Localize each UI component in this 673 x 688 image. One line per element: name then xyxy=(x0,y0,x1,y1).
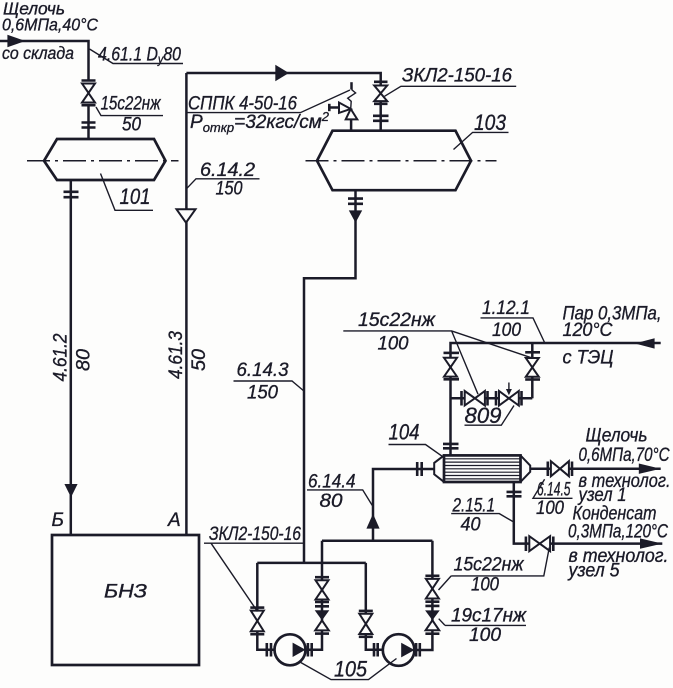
svg-text:100: 100 xyxy=(536,498,564,519)
svg-text:150: 150 xyxy=(247,383,278,404)
valve: left steam drop xyxy=(444,353,460,379)
check valve 19с17нж: pump 2 discharge xyxy=(425,610,440,633)
svg-text:105: 105 xyxy=(334,657,367,682)
safety valve СППК 4-50-16 xyxy=(329,82,357,131)
svg-text:6.14.3: 6.14.3 xyxy=(237,360,289,381)
svg-text:БНЗ: БНЗ xyxy=(104,582,147,603)
label 105 xyxy=(299,657,397,682)
svg-text:50: 50 xyxy=(189,349,210,371)
svg-text:100: 100 xyxy=(378,334,409,355)
label 6.14.2 / 150 xyxy=(187,160,260,200)
flange pair: pump 1 outlet xyxy=(308,643,312,657)
valve: pump 1 suction xyxy=(250,608,264,635)
arrow: inlet flow xyxy=(7,35,25,47)
label 2.15.1 / 40 xyxy=(451,496,513,536)
flange pair: heat exchanger steam inlet xyxy=(443,444,459,448)
svg-text:120°С: 120°С xyxy=(563,320,613,341)
label 15с22нж / 50 xyxy=(96,94,163,136)
flange: condensate valve left xyxy=(525,537,528,552)
svg-text:40: 40 xyxy=(461,515,481,536)
label 1.12.1 / 100 xyxy=(481,298,545,343)
wire: steam line from ТЭЦ xyxy=(451,343,661,455)
wire: discharge header xyxy=(322,540,432,543)
svg-text:0,3МПа,120°С: 0,3МПа,120°С xyxy=(568,522,668,543)
wire: alkali outlet from 104 to узел 1 xyxy=(530,467,661,470)
centerline: vessel 101 xyxy=(27,160,179,162)
svg-text:104: 104 xyxy=(389,420,420,445)
svg-text:с ТЭЦ: с ТЭЦ xyxy=(563,348,614,369)
label 15с22нж / 100 (bottom right) xyxy=(439,548,550,596)
wire: inlet line from warehouse to valve xyxy=(0,41,89,80)
arrow: condensate outlet flow xyxy=(640,538,662,548)
svg-text:Щелочь: Щелочь xyxy=(586,426,648,447)
svg-text:15с22нж: 15с22нж xyxy=(454,555,525,576)
label 6.14.5 / 100 xyxy=(533,479,573,519)
valve ЗКЛ2-150-16 (vessel 103 inlet) xyxy=(374,82,388,104)
label ЗКЛ2-150-16 (pump suction valves) xyxy=(204,524,304,612)
arrow: downward flow on 4.61.2 xyxy=(64,484,77,497)
wire: bypass line 809 xyxy=(451,397,533,400)
svg-text:80: 80 xyxy=(74,349,95,371)
tank БНЗ xyxy=(52,535,199,665)
label 4.61.1 Dy80 xyxy=(90,45,184,67)
wire: line 4.61.2 down to tank БНЗ xyxy=(70,180,73,535)
svg-text:15с22нж: 15с22нж xyxy=(358,310,436,331)
svg-text:со склада: со склада xyxy=(2,43,74,63)
flange: outlet left xyxy=(546,462,549,477)
label СППК 4-50-16 / Роткр=32кгс/см2 xyxy=(187,90,350,135)
valve: right steam drop xyxy=(525,352,540,379)
text: Щелочь 0,6МПа,70°С в технолог. узел 1 xyxy=(577,426,671,507)
svg-text:4.61.2: 4.61.2 xyxy=(51,333,72,381)
flange pair: vessel 103 inlet nozzle xyxy=(373,116,389,121)
flange pair: 104 bottom outlet xyxy=(507,492,522,496)
valve: pump 2 suction xyxy=(359,611,373,637)
label 103 xyxy=(454,110,509,150)
wire: pump 2 discharge riser xyxy=(415,541,433,650)
wire: valve to vessel 101 nozzle xyxy=(87,105,90,139)
label 6.14.4 / 80 xyxy=(307,472,372,513)
wire: line 4.61.3 / 6.14.2 vertical xyxy=(185,73,188,535)
text: Пар 0,3МПа, 120°С с ТЭЦ xyxy=(563,304,662,369)
flange pair: pump 1 inlet xyxy=(267,643,271,657)
svg-text:19с17нж: 19с17нж xyxy=(451,606,527,627)
svg-text:А: А xyxy=(167,510,181,531)
label 19с17нж / 100 xyxy=(439,606,527,647)
label 101 xyxy=(101,174,154,211)
heat exchanger 104 body xyxy=(434,455,530,482)
svg-text:ЗКЛ2-150-16: ЗКЛ2-150-16 xyxy=(402,66,512,87)
hollow arrow: drain / vent on 6.14.2 xyxy=(177,209,196,222)
wire: suction header xyxy=(257,562,366,565)
svg-text:103: 103 xyxy=(474,110,506,135)
vessel 103 xyxy=(317,131,471,191)
svg-text:15с22нж: 15с22нж xyxy=(101,94,162,115)
arrow: alkali outlet flow xyxy=(639,464,661,474)
svg-text:Б: Б xyxy=(52,510,64,531)
arrow: downward flow on 6.14.3 xyxy=(349,210,362,222)
valve: condensate gate valve xyxy=(529,536,553,551)
check valve: pump 1 discharge xyxy=(315,610,330,633)
svg-text:50: 50 xyxy=(122,115,141,136)
valve 15с22нж (inlet to vessel 101) xyxy=(82,81,96,106)
svg-text:ЗКЛ2-150-16: ЗКЛ2-150-16 xyxy=(209,524,301,545)
flange pair: pump 2 outlet xyxy=(416,643,420,657)
label 809 xyxy=(465,403,515,428)
svg-text:узел 5: узел 5 xyxy=(567,561,620,582)
svg-text:80: 80 xyxy=(320,491,343,512)
valve: bypass left xyxy=(462,391,488,406)
arrow: upward flow to 104 xyxy=(366,514,379,529)
svg-text:101: 101 xyxy=(120,184,151,209)
wire: condensate line 2.15.1 xyxy=(514,482,663,544)
label ЗКЛ2-150-16 (top) xyxy=(385,66,517,97)
valve: pump 1 discharge gate xyxy=(315,577,329,606)
text: Конденсат 0,3МПа,120°С в технолог. узел 5 xyxy=(567,504,669,582)
flange pair: vessel 103 bottom outlet xyxy=(348,199,363,204)
svg-text:0,6МПа,40°С: 0,6МПа,40°С xyxy=(2,15,98,35)
vessel 101 xyxy=(44,139,166,180)
label 15с22нж / 100 (steam valves) xyxy=(343,310,531,394)
wire: right steam drop xyxy=(531,343,534,398)
flange pair: 104 inlet xyxy=(417,462,422,476)
svg-text:150: 150 xyxy=(216,179,243,200)
svg-text:4.61.3: 4.61.3 xyxy=(166,331,187,379)
centerline: vessel 103 xyxy=(306,160,497,162)
valve: bypass right (regulating 809) xyxy=(496,383,522,406)
valve: pump 2 discharge gate xyxy=(425,576,439,606)
label 6.14.3 / 150 xyxy=(234,360,305,404)
wire: pump 2 suction drop xyxy=(366,563,383,650)
text: Щелочь 0,6МПа,40°С xyxy=(2,0,98,35)
wire: top line from 4.61.3 to vessel 103 xyxy=(186,73,380,131)
wire: line 6.14.3 from vessel 103 to pump suction header xyxy=(304,190,356,563)
flange pair: vessel 101 inlet xyxy=(82,123,96,128)
arrow: steam flow (left) xyxy=(635,338,655,348)
arrow: flow on top line xyxy=(275,65,289,81)
valve: outlet gate valve xyxy=(551,461,572,476)
wire: line 6.14.4 riser and inlet to 104 xyxy=(373,469,434,541)
flange pair: vessel 101 bottom outlet xyxy=(64,192,79,197)
wire: pump 1 suction drop xyxy=(257,563,274,650)
label 104 xyxy=(389,420,445,458)
flange pair: pump 2 inlet xyxy=(374,643,378,657)
svg-text:100: 100 xyxy=(471,575,499,596)
svg-text:100: 100 xyxy=(492,320,521,341)
svg-text:0,6МПа,70°С: 0,6МПа,70°С xyxy=(579,445,670,466)
svg-text:1.12.1: 1.12.1 xyxy=(482,298,530,319)
svg-text:100: 100 xyxy=(469,625,501,646)
svg-text:809: 809 xyxy=(465,403,502,428)
pump 105 unit 1 xyxy=(275,634,306,665)
pump 105 unit 2 xyxy=(383,634,415,666)
wire: pump 1 discharge riser xyxy=(306,541,323,650)
